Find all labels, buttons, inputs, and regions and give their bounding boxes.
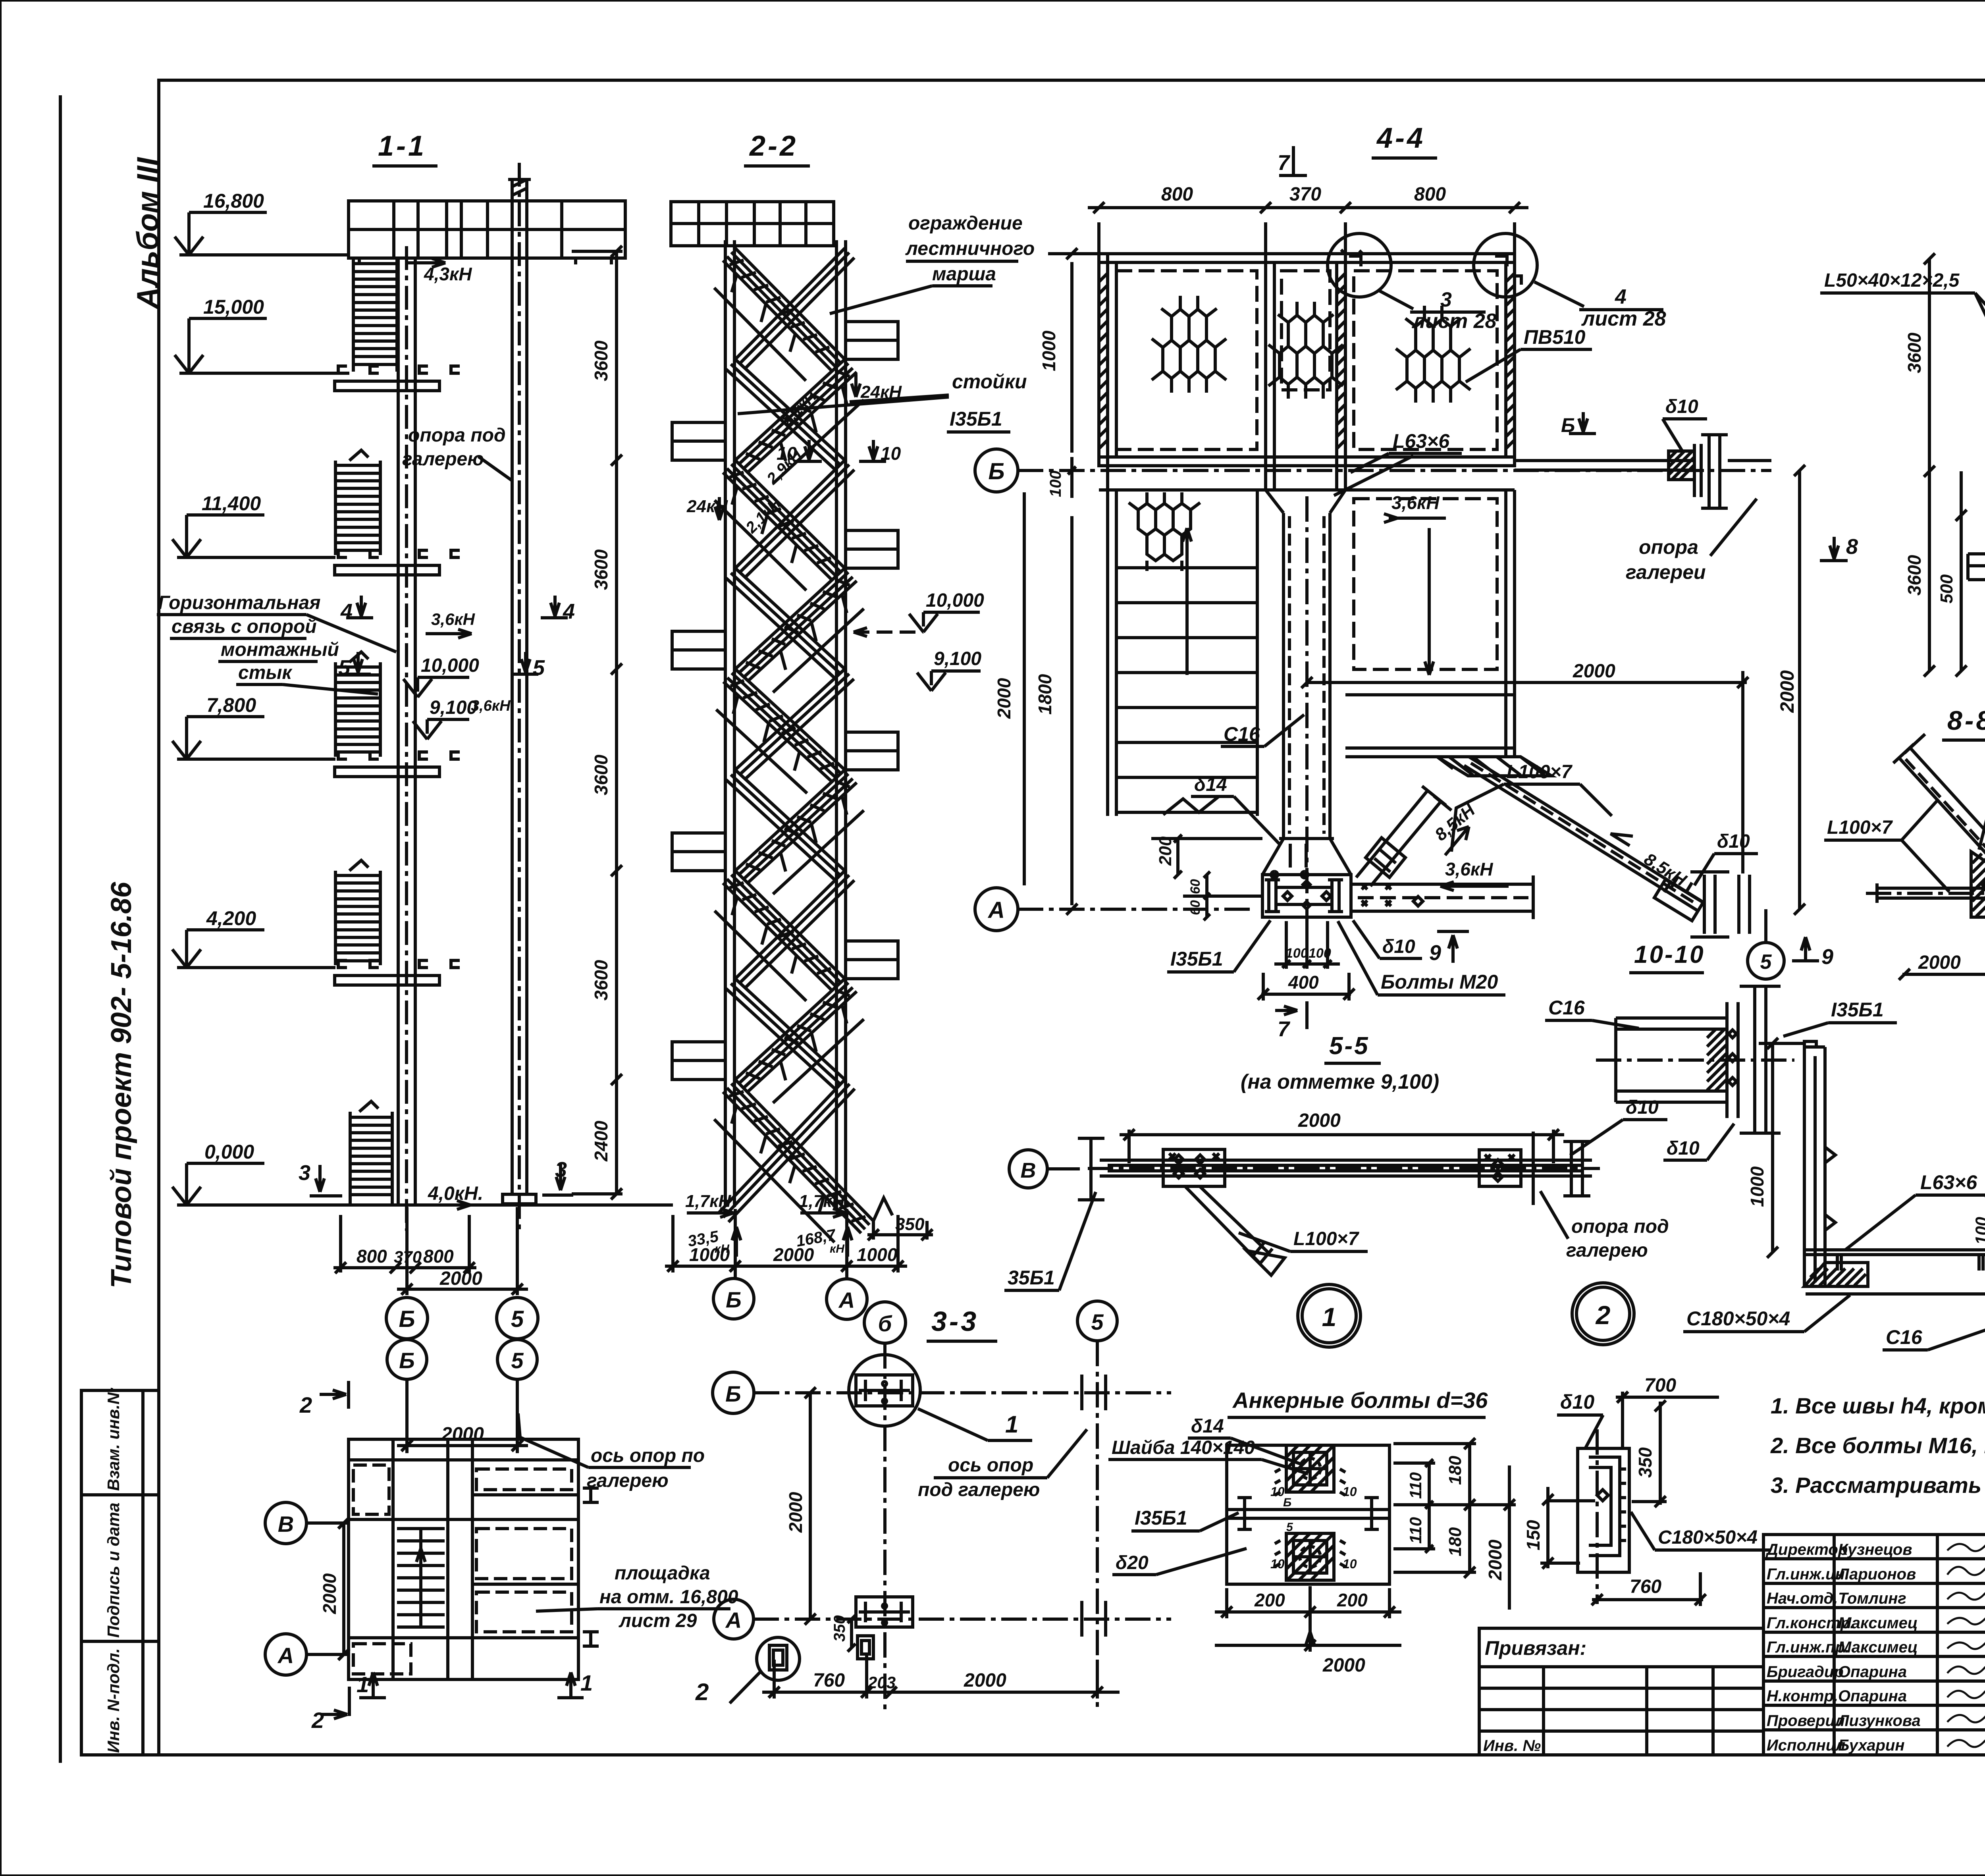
platform beam at level 7800	[338, 752, 347, 759]
svg-text:7: 7	[1278, 151, 1291, 175]
svg-text:3600: 3600	[591, 754, 611, 795]
svg-text:Инв. №: Инв. №	[1483, 1737, 1541, 1755]
svg-text:Инв. N-подл.: Инв. N-подл.	[104, 1648, 123, 1753]
axis circle 5	[497, 1298, 538, 1339]
svg-text:δ20: δ20	[1116, 1552, 1149, 1573]
svg-text:800: 800	[1414, 184, 1446, 205]
svg-text:35Б1: 35Б1	[1008, 1267, 1055, 1289]
svg-text:ось опор по: ось опор по	[591, 1445, 705, 1466]
plan outer rect	[349, 1439, 578, 1679]
axis circle B (2-2)	[734, 1209, 737, 1278]
svg-text:Проверил: Проверил	[1767, 1712, 1845, 1729]
svg-text:1000: 1000	[857, 1244, 898, 1265]
svg-text:2000: 2000	[439, 1268, 482, 1289]
svg-text:I35Б1: I35Б1	[1831, 999, 1884, 1021]
svg-text:А: А	[277, 1643, 294, 1668]
stair treads in plan	[397, 1527, 445, 1530]
svg-text:3-3: 3-3	[931, 1306, 979, 1337]
svg-text:В: В	[1021, 1159, 1036, 1182]
svg-text:700: 700	[1644, 1375, 1676, 1396]
svg-text:5: 5	[1091, 1309, 1104, 1334]
beam at axis B to galery support	[1515, 459, 1694, 462]
right platform 2-2	[846, 941, 898, 979]
I-beam symbol at 5/A	[1082, 1601, 1106, 1637]
svg-text:Бригадир: Бригадир	[1767, 1663, 1844, 1681]
svg-text:760: 760	[813, 1670, 845, 1691]
left I-beam end	[1089, 1138, 1093, 1200]
svg-text:1: 1	[580, 1670, 593, 1695]
svg-text:2000: 2000	[1918, 952, 1961, 973]
I-beam symbol at 5/B	[1082, 1375, 1106, 1410]
bottom dim row 760/203/2000	[773, 1660, 776, 1699]
connection plate	[1725, 1002, 1729, 1118]
dim row 1000-2000-1000	[671, 1215, 675, 1273]
left platform 2-2	[672, 631, 725, 669]
dim 350 (3-3)	[850, 1619, 853, 1648]
svg-text:16,800: 16,800	[203, 190, 264, 212]
svg-text:лестничного: лестничного	[905, 238, 1035, 259]
end I-beam of brace	[1703, 875, 1706, 934]
svg-text:галереи: галереи	[1626, 561, 1706, 583]
svg-text:15,000: 15,000	[203, 296, 264, 318]
dim 2000 horizontal (4-4)	[1307, 681, 1747, 684]
svg-text:С16: С16	[1548, 997, 1585, 1019]
stair flight M4 (far run)	[726, 568, 845, 679]
stair flight M2 (far run)	[726, 359, 845, 470]
gusset at support	[1669, 451, 1694, 480]
svg-text:5: 5	[1760, 951, 1772, 974]
svg-text:Опарина: Опарина	[1838, 1663, 1907, 1681]
flight end cut	[873, 1198, 892, 1221]
dim 350	[1659, 1402, 1662, 1505]
svg-text:350: 350	[895, 1215, 925, 1234]
svg-text:L100×7: L100×7	[1507, 762, 1573, 783]
svg-text:350: 350	[831, 1615, 848, 1642]
svg-text:24кН: 24кН	[860, 382, 902, 402]
hex grating panel 3	[1396, 306, 1470, 403]
dim 1000 (7-7)	[1771, 1043, 1774, 1252]
top dim row 800-370-800	[1097, 222, 1100, 254]
lower anchor box	[1286, 1533, 1334, 1580]
corner post foot	[1804, 1263, 1868, 1286]
lower left beam (level 9100)	[1968, 552, 1985, 555]
support I-beam section	[1707, 435, 1711, 508]
svg-text:10: 10	[1270, 1485, 1285, 1499]
svg-text:5: 5	[338, 656, 351, 680]
dim 2000 between axes	[405, 1379, 409, 1453]
svg-text:площадка: площадка	[615, 1563, 710, 1584]
svg-text:галерею: галерею	[587, 1470, 669, 1491]
dim 400	[1261, 993, 1351, 996]
axis circle A (2-2)	[845, 1209, 848, 1278]
hex grating panel 2	[1268, 302, 1343, 399]
axis lines	[883, 1343, 887, 1711]
support end plate	[1693, 444, 1696, 497]
axis circle 5 (4-4)	[1748, 943, 1784, 979]
bolt diamond	[1597, 1490, 1608, 1501]
stair ladder above level 7800	[334, 662, 337, 757]
svg-text:Нач.отд.: Нач.отд.	[1767, 1590, 1838, 1607]
corner angle post	[1803, 1047, 1806, 1286]
stair flight F2	[735, 359, 857, 473]
channel C16	[1616, 1016, 1727, 1020]
svg-text:3600: 3600	[591, 549, 611, 590]
channel C inside	[1589, 1457, 1620, 1556]
svg-text:9,100: 9,100	[430, 697, 477, 718]
detail circle 1	[1298, 1284, 1361, 1347]
stair flight M5 (far run)	[735, 669, 854, 780]
stair flight F7	[723, 871, 845, 991]
svg-text:10-10: 10-10	[1634, 941, 1705, 968]
right end plate and support section	[1532, 1132, 1535, 1205]
svg-text:опора под: опора под	[408, 425, 506, 446]
weld marks	[1275, 1469, 1345, 1495]
svg-text:б: б	[878, 1311, 892, 1336]
svg-text:на отм. 16,800: на отм. 16,800	[599, 1587, 738, 1608]
svg-text:5-5: 5-5	[1329, 1032, 1370, 1060]
svg-text:I35Б1: I35Б1	[1135, 1507, 1187, 1529]
svg-text:L100×7: L100×7	[1827, 817, 1893, 838]
platform small posts	[358, 258, 361, 264]
stair flight F4	[735, 568, 857, 682]
dim 2000 (5-5)	[1127, 1130, 1131, 1163]
svg-text:1000: 1000	[689, 1244, 730, 1265]
dim 2000 vertical right	[1798, 470, 1801, 909]
svg-text:1800: 1800	[1035, 674, 1055, 715]
svg-text:Типовой проект 902- 5-16.86: Типовой проект 902- 5-16.86	[106, 881, 137, 1288]
stair flight M7 (far run)	[735, 871, 854, 988]
axis circle V	[1009, 1150, 1047, 1188]
small hex in lower bay	[1129, 492, 1200, 571]
svg-text:(на отметке 9,100): (на отметке 9,100)	[1241, 1070, 1439, 1093]
bolts on gusset	[1983, 881, 1985, 890]
left gusset with bolts	[1163, 1149, 1225, 1186]
svg-text:10: 10	[1270, 1557, 1285, 1571]
right platform 2-2	[846, 732, 898, 770]
svg-text:опора: опора	[1639, 536, 1698, 558]
dim row 800-370-800	[339, 1215, 342, 1273]
dashed hidden outlines in plan cells	[353, 1465, 389, 1514]
svg-text:3. Рассматривать совместно: 3. Рассматривать совместно с листами 28,…	[1771, 1473, 1985, 1498]
svg-text:Подпись и дата: Подпись и дата	[104, 1503, 123, 1638]
svg-text:δ10: δ10	[1560, 1391, 1594, 1413]
stair flight M8 (far run)	[726, 979, 845, 1089]
stair flight F1	[723, 248, 845, 372]
right support column (opora pod galereyu)	[511, 179, 514, 1195]
direction arrow in plan	[419, 1548, 422, 1620]
svg-text:А: А	[725, 1608, 742, 1633]
svg-text:110: 110	[1406, 1472, 1425, 1499]
svg-text:Томлинг: Томлинг	[1838, 1590, 1906, 1607]
right stringer column	[835, 240, 838, 1207]
svg-text:10,000: 10,000	[421, 655, 479, 676]
right dim chain between views	[615, 251, 618, 1194]
svg-text:2000: 2000	[1573, 661, 1615, 682]
svg-text:δ10: δ10	[1665, 396, 1698, 417]
svg-text:Исполнил: Исполнил	[1767, 1737, 1845, 1754]
svg-text:2-2: 2-2	[749, 130, 798, 162]
notes text	[1770, 1393, 1985, 1498]
svg-text:1000: 1000	[1039, 330, 1059, 371]
svg-text:ограждение: ограждение	[908, 213, 1023, 234]
svg-text:галерею: галерею	[1566, 1240, 1648, 1261]
left attribute column boxes	[81, 1387, 159, 1755]
svg-text:370: 370	[1289, 184, 1321, 205]
svg-text:800: 800	[423, 1246, 454, 1267]
svg-text:10: 10	[1343, 1485, 1357, 1499]
svg-text:δ10: δ10	[1626, 1097, 1659, 1118]
svg-text:2000: 2000	[994, 678, 1014, 719]
plan horizontal dividers	[349, 1458, 578, 1461]
svg-text:L50×40×12×2,5: L50×40×12×2,5	[1824, 270, 1960, 291]
platform beam at level 11400	[338, 550, 347, 557]
dims 100 100 under base	[1285, 921, 1288, 969]
svg-text:2: 2	[1595, 1300, 1611, 1330]
base bolts	[1283, 881, 1331, 909]
svg-text:стык: стык	[238, 662, 293, 683]
small circled detail 2	[757, 1637, 800, 1680]
base plate outline	[1227, 1445, 1389, 1584]
brace gusset top	[1437, 757, 1551, 776]
svg-text:3,6кН: 3,6кН	[1445, 859, 1493, 879]
svg-text:9: 9	[1429, 941, 1441, 965]
beam I35B1 to the right of base	[1351, 883, 1533, 886]
svg-text:60: 60	[1188, 879, 1203, 894]
svg-text:Б: Б	[1283, 1496, 1291, 1509]
svg-text:800: 800	[1161, 184, 1193, 205]
I-beam marks right edge	[583, 1488, 599, 1502]
detail circle 2	[1572, 1283, 1634, 1345]
axis circle A (plan)	[265, 1634, 306, 1675]
left stringer column	[724, 240, 727, 1207]
svg-text:3: 3	[299, 1161, 310, 1185]
svg-text:180: 180	[1445, 1527, 1465, 1556]
svg-text:Взам. инв.N:: Взам. инв.N:	[104, 1387, 123, 1491]
detail circle 4 on top edge	[1474, 233, 1537, 297]
svg-text:I35Б1: I35Б1	[1170, 948, 1223, 970]
stair flight F9	[723, 1080, 873, 1233]
detail circle around node 1	[849, 1355, 920, 1426]
svg-text:2. Все болты М16, кроме: 2. Все болты М16, кроме оговоренных.	[1770, 1433, 1985, 1458]
axis circle B	[386, 1298, 428, 1339]
svg-text:100: 100	[1309, 946, 1331, 961]
direction arrow up	[1185, 528, 1189, 675]
dim 2000 vertical (plan)	[342, 1523, 345, 1654]
I35B1 beam through plate	[1227, 1508, 1389, 1511]
axis B circle (4-4)	[975, 449, 1018, 492]
left column strip	[1106, 254, 1109, 490]
sheet outer edge left	[59, 95, 62, 1763]
stair ladder above level 11400	[334, 461, 337, 555]
svg-text:5: 5	[533, 656, 545, 680]
svg-text:350: 350	[1635, 1447, 1655, 1478]
svg-text:10,000: 10,000	[926, 590, 984, 611]
svg-text:3,6кН: 3,6кН	[1391, 492, 1440, 513]
svg-text:1: 1	[1322, 1302, 1337, 1332]
svg-text:4: 4	[1615, 285, 1627, 308]
svg-text:2: 2	[311, 1708, 324, 1733]
stair flight M1 (far run)	[735, 248, 854, 369]
svg-text:3600: 3600	[1904, 332, 1925, 373]
svg-text:203: 203	[867, 1673, 896, 1692]
svg-text:Горизонтальная: Горизонтальная	[158, 592, 320, 613]
top platform railing grid	[349, 201, 625, 258]
svg-text:Болты М20: Болты М20	[1381, 971, 1498, 993]
svg-text:связь с опорой: связь с опорой	[172, 616, 317, 637]
svg-text:9,100: 9,100	[934, 648, 981, 669]
svg-text:Б: Б	[399, 1348, 415, 1373]
svg-text:4-4: 4-4	[1376, 122, 1425, 154]
svg-text:1000: 1000	[1747, 1166, 1767, 1207]
svg-text:1: 1	[357, 1672, 369, 1697]
left platform 2-2	[672, 422, 725, 460]
platform outer rect	[1099, 254, 1515, 466]
svg-text:0,000: 0,000	[204, 1141, 254, 1163]
right platform 2-2	[846, 530, 898, 568]
svg-text:3: 3	[1440, 288, 1452, 311]
svg-text:150: 150	[1523, 1520, 1544, 1550]
svg-text:1: 1	[1005, 1411, 1018, 1438]
svg-text:10: 10	[1343, 1557, 1357, 1571]
svg-text:2: 2	[299, 1392, 312, 1417]
short diagonal brace L100x7 to base	[1356, 791, 1441, 886]
axis circle A left	[714, 1599, 754, 1639]
bottom dims 200/200	[1225, 1588, 1228, 1618]
dim 2000 rotated (anchor)	[1508, 1465, 1511, 1610]
central column	[397, 258, 400, 1205]
svg-text:Гл.инж.пр.: Гл.инж.пр.	[1767, 1639, 1849, 1656]
svg-text:галерею: галерею	[402, 449, 484, 470]
svg-text:2000: 2000	[785, 1492, 806, 1533]
stair flight F6	[735, 770, 857, 883]
upper anchor box	[1286, 1445, 1334, 1492]
signature table	[1763, 1557, 1985, 1560]
svg-text:2000: 2000	[964, 1670, 1006, 1691]
svg-text:2000: 2000	[1485, 1539, 1505, 1581]
svg-text:Шайба 140×140: Шайба 140×140	[1112, 1437, 1255, 1458]
stair flight M3 (far run)	[735, 460, 854, 578]
svg-text:С180×50×4: С180×50×4	[1686, 1307, 1790, 1330]
dim 2000 (8-8)	[1902, 973, 1985, 976]
gusset (8-8)	[1971, 852, 1985, 917]
svg-text:3,6кН: 3,6кН	[431, 610, 476, 629]
left platform 2-2	[672, 833, 725, 871]
right dim chains	[1428, 1463, 1431, 1549]
svg-text:4,3кН: 4,3кН	[424, 264, 472, 284]
stair flight F5	[723, 669, 845, 783]
dashed hidden beams in panels	[1116, 271, 1257, 449]
axis circle V (plan)	[265, 1502, 306, 1544]
svg-text:200: 200	[1254, 1590, 1285, 1610]
svg-text:3600: 3600	[591, 340, 611, 381]
svg-text:2400: 2400	[591, 1120, 611, 1162]
platform bottom edge double	[1099, 455, 1515, 459]
hex grating panel 1	[1152, 296, 1226, 393]
dim 760	[1592, 1598, 1703, 1601]
svg-text:4: 4	[563, 600, 575, 623]
top platform 2-2	[671, 202, 834, 246]
signatures squiggles	[1947, 1540, 1985, 1747]
svg-text:2: 2	[695, 1679, 709, 1705]
left dim chain 1000/1800	[1070, 262, 1073, 453]
lower-left stair bay (plan treads)	[1106, 490, 1109, 816]
svg-text:3,6кН: 3,6кН	[471, 698, 511, 714]
stair flight F3	[723, 460, 845, 580]
svg-text:С180×50×4: С180×50×4	[1658, 1527, 1758, 1548]
beam 35B1 (5-5)	[1100, 1159, 1592, 1162]
svg-text:Привязан:: Привязан:	[1485, 1637, 1586, 1659]
svg-text:200: 200	[1156, 836, 1175, 866]
svg-text:5: 5	[511, 1306, 524, 1332]
svg-text:I35Б1: I35Б1	[950, 408, 1002, 430]
svg-text:А: А	[987, 897, 1005, 923]
brace gusset bottom with plate	[1654, 879, 1703, 921]
stair ladder above level 4200	[334, 871, 337, 965]
top stair ladder	[352, 259, 355, 372]
axis circle B second	[387, 1340, 427, 1379]
stair flight M9 (far run)	[719, 1080, 855, 1222]
svg-text:9: 9	[1821, 945, 1833, 969]
svg-text:1,7кН: 1,7кН	[799, 1192, 845, 1211]
weld ticks along channel	[1621, 1469, 1626, 1541]
title block	[1763, 1535, 1985, 1755]
svg-text:под галерею: под галерею	[918, 1479, 1040, 1500]
svg-text:Кузнецов: Кузнецов	[1838, 1541, 1912, 1558]
svg-text:δ10: δ10	[1717, 831, 1750, 852]
middle bay verticals	[1264, 254, 1267, 490]
corner beam bottom left	[1806, 1248, 1985, 1251]
privyazan block	[1479, 1628, 1763, 1755]
base plate at node A-b	[856, 1597, 913, 1627]
svg-text:2000: 2000	[1322, 1655, 1365, 1676]
dim 150	[1546, 1487, 1549, 1568]
svg-text:В: В	[278, 1512, 294, 1537]
right column base plate	[503, 1194, 536, 1204]
svg-text:ПВ510: ПВ510	[1524, 326, 1586, 348]
bottom stair ladder	[349, 1112, 352, 1204]
svg-text:400: 400	[1288, 972, 1319, 993]
svg-text:Б: Б	[988, 459, 1004, 484]
svg-text:2000: 2000	[1777, 670, 1798, 713]
svg-text:11,400: 11,400	[202, 492, 261, 515]
svg-text:А: А	[838, 1288, 855, 1313]
svg-text:Опарина: Опарина	[1838, 1687, 1907, 1705]
svg-text:2000: 2000	[773, 1244, 814, 1265]
svg-text:100: 100	[1285, 946, 1308, 961]
svg-text:L63×6: L63×6	[1393, 430, 1450, 452]
svg-text:100: 100	[1047, 470, 1064, 497]
ground line	[178, 1203, 673, 1207]
svg-text:Альбом III: Альбом III	[131, 157, 165, 310]
beam (8-8)	[1877, 887, 1985, 890]
svg-text:Анкерные болты d=36: Анкерные болты d=36	[1232, 1388, 1488, 1413]
platform beam at level 4200	[338, 960, 347, 968]
svg-text:100: 100	[1972, 1217, 1985, 1245]
detail circle 3 on top edge	[1328, 233, 1391, 297]
svg-text:8: 8	[1846, 535, 1858, 559]
right edge strip	[1504, 262, 1507, 457]
svg-text:Максимец: Максимец	[1838, 1639, 1918, 1656]
diagonal stub down	[1185, 1186, 1270, 1263]
svg-text:С16: С16	[1886, 1326, 1923, 1348]
right lower bay	[1504, 490, 1507, 757]
svg-text:Директор: Директор	[1765, 1541, 1848, 1558]
svg-text:4: 4	[340, 600, 353, 623]
svg-text:7,800: 7,800	[206, 694, 256, 716]
platform beam at level 15000	[338, 366, 347, 373]
svg-text:Лизункова: Лизункова	[1837, 1712, 1921, 1729]
bottom dim 2000	[1309, 1618, 1312, 1652]
